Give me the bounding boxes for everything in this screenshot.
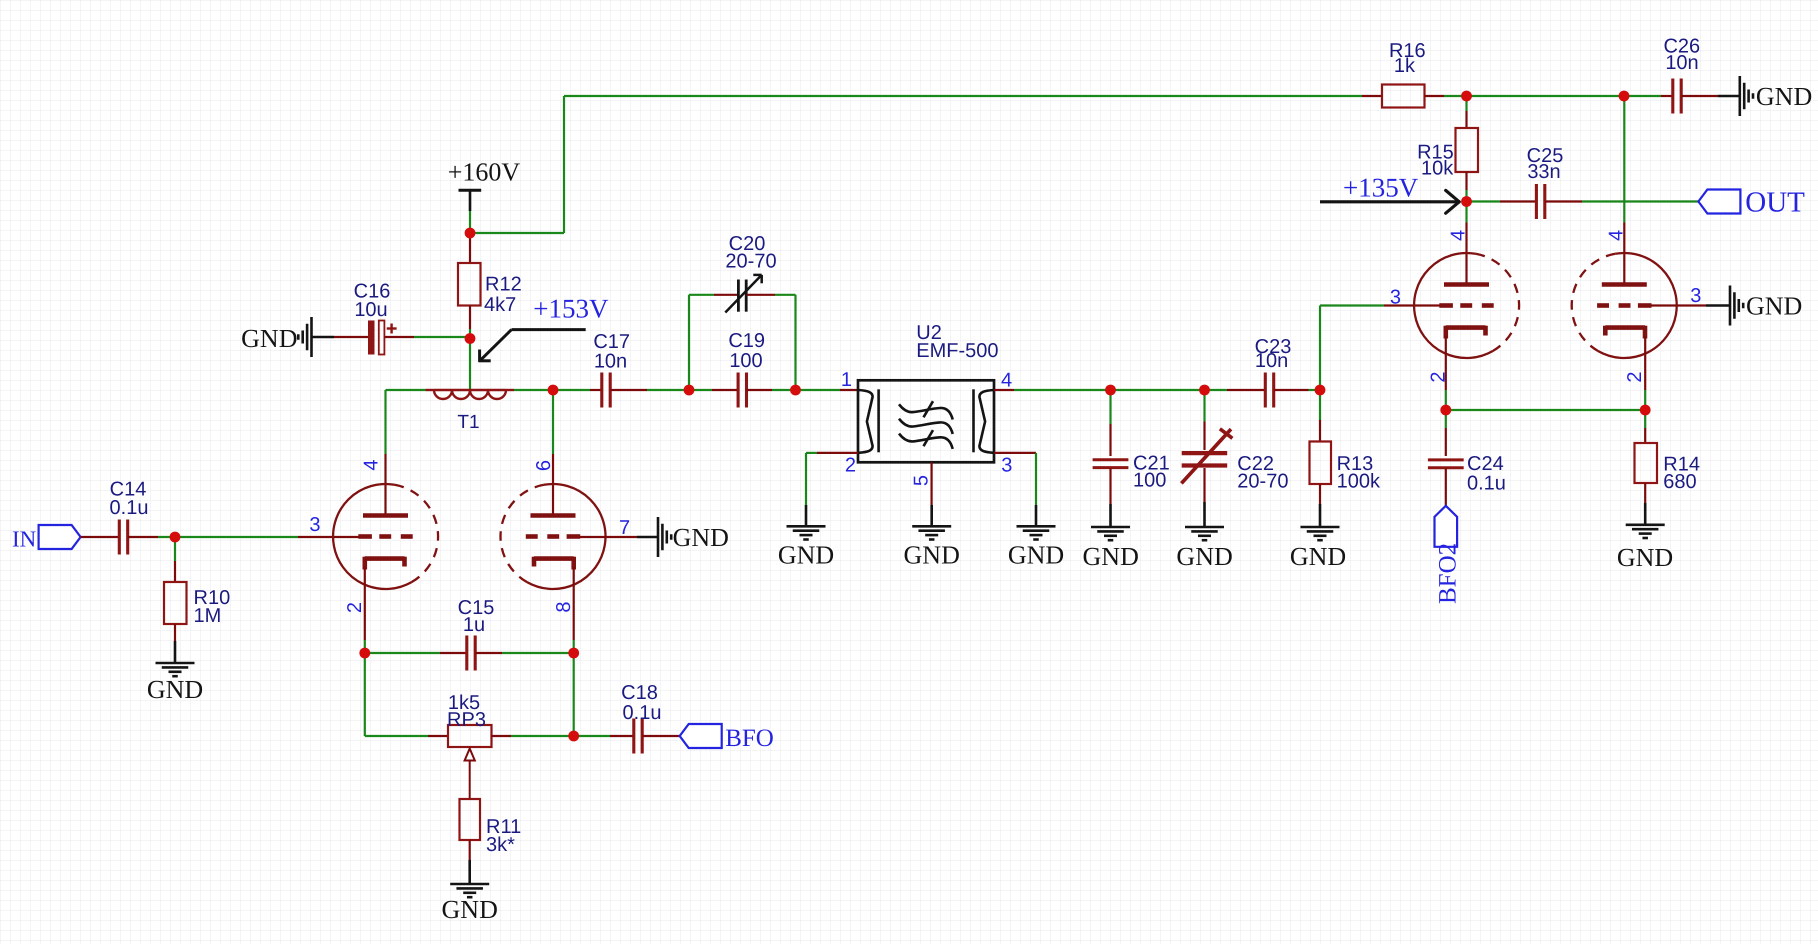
ground C22: [1176, 527, 1232, 571]
pin 2 lead V2a: [1445, 336, 1447, 390]
junction T1 right: [548, 385, 559, 396]
wire left node down: [364, 653, 366, 736]
lead C17 right: [611, 389, 648, 391]
svg-text:C18: C18: [621, 682, 658, 704]
wire U2 to C21 node: [1014, 389, 1111, 391]
svg-text:6: 6: [533, 460, 555, 471]
ground stem C22: [1203, 502, 1206, 527]
wire T1 right: [514, 389, 553, 391]
junction C14/R10: [170, 532, 181, 543]
pin 8 lead tube V1b: [573, 567, 575, 640]
capacitor C15: [458, 597, 495, 671]
svg-text:BFO2: BFO2: [1435, 543, 1462, 604]
wire C20 right: [775, 294, 796, 296]
lead R15 bottom: [1465, 172, 1467, 190]
pin 6 lead tube V1b: [552, 454, 554, 516]
lead U2 pin5: [930, 462, 932, 505]
svg-text:OUT: OUT: [1745, 187, 1805, 219]
lead C20 left: [714, 294, 738, 296]
resistor R13: [1310, 442, 1381, 493]
capacitor C14: [110, 479, 149, 555]
lead C22 top: [1203, 422, 1205, 451]
wire T1 node to C17: [553, 389, 590, 391]
lead C21 top: [1109, 424, 1111, 456]
lead R14 top: [1644, 428, 1646, 443]
svg-text:100: 100: [1133, 470, 1166, 492]
svg-text:3: 3: [1690, 285, 1701, 307]
svg-text:GND: GND: [1176, 542, 1232, 571]
svg-text:2: 2: [1427, 371, 1449, 382]
resistor R11: [460, 799, 522, 856]
wire C14 to node: [128, 536, 158, 538]
pin 2 lead tube V1a: [364, 567, 366, 640]
wire C21 node to C22 node: [1111, 389, 1205, 391]
pin 3 lead V2a: [1384, 304, 1440, 306]
pin 4 label V2a: [1448, 230, 1470, 241]
svg-text:GND: GND: [778, 541, 834, 570]
lead R13 bottom: [1319, 484, 1321, 504]
svg-text:GND: GND: [1617, 543, 1673, 572]
lead U2 pin1: [840, 389, 858, 391]
svg-text:4: 4: [361, 459, 383, 470]
junction R16/R15: [1461, 91, 1472, 102]
wire pin2 to node: [364, 640, 366, 653]
lead C23 left: [1227, 389, 1265, 391]
lead U2 pin3: [994, 452, 1036, 454]
resistor R10: [164, 582, 230, 627]
wire node to R12: [469, 233, 471, 263]
svg-text:3: 3: [1001, 455, 1012, 477]
ground stem R10: [174, 641, 177, 663]
svg-text:EMF-500: EMF-500: [916, 340, 998, 362]
triode V2a: [1414, 253, 1519, 358]
wire node to grid pin 3: [158, 536, 298, 538]
ground stem R14: [1644, 503, 1647, 525]
ground pin 7: [658, 517, 729, 557]
svg-text:0.1u: 0.1u: [110, 497, 149, 519]
svg-text:4: 4: [1448, 230, 1470, 241]
wire R13 node down: [1319, 390, 1321, 420]
wire C26 node right: [1624, 95, 1661, 97]
lead R16 right: [1425, 95, 1445, 97]
ground stem pin3: [1035, 505, 1038, 526]
junction C21: [1105, 385, 1116, 396]
wire C20 left: [689, 294, 714, 296]
lead C17 left: [590, 389, 602, 391]
pin 3 label V2a: [1390, 287, 1401, 309]
resistor R15: [1417, 128, 1478, 180]
capacitor C19: [728, 330, 765, 408]
svg-text:7: 7: [619, 517, 630, 539]
svg-text:1k: 1k: [1394, 55, 1416, 77]
svg-text:GND: GND: [673, 523, 729, 552]
svg-text:GND: GND: [1746, 292, 1802, 321]
wire node to C25: [1467, 200, 1501, 202]
capacitor C25: [1527, 145, 1564, 219]
lead C21 bottom: [1109, 468, 1111, 504]
wire node to R15: [1465, 96, 1467, 111]
wire R16 to node: [1444, 95, 1467, 97]
wire C23 to node: [1309, 389, 1321, 391]
resistor R14: [1635, 443, 1701, 493]
svg-text:2: 2: [845, 455, 856, 477]
filter U2 EMF-500: [858, 322, 999, 462]
wire C15 to node: [502, 652, 574, 654]
ground C21: [1083, 527, 1139, 571]
junction C19 right: [790, 385, 801, 396]
svg-text:0.1u: 0.1u: [1467, 473, 1506, 495]
capacitor C17: [593, 331, 630, 408]
svg-text:RP3: RP3: [447, 709, 486, 731]
pin 3 lead V2b: [1651, 304, 1706, 306]
svg-text:4: 4: [1001, 370, 1012, 392]
inductor T1: [426, 390, 515, 433]
wire pin2 V2a: [1445, 390, 1447, 410]
svg-text:+135V: +135V: [1343, 173, 1419, 203]
svg-text:GND: GND: [442, 895, 498, 924]
U2 pin 4 label: [1001, 370, 1012, 392]
svg-text:BFO: BFO: [725, 725, 774, 752]
U2 pin 5 label: [910, 475, 932, 486]
ground R13: [1290, 527, 1346, 571]
pin 7 label: [619, 517, 630, 539]
wire pin2 V2b: [1644, 390, 1646, 410]
svg-text:+160V: +160V: [448, 157, 521, 186]
capacitor C24: [1428, 453, 1506, 495]
pin 3 label V2b: [1690, 285, 1701, 307]
junction R13 node: [1315, 385, 1326, 396]
lead C26 left: [1661, 95, 1672, 97]
wire node to C19: [689, 389, 712, 391]
wire node to C15: [365, 652, 440, 654]
lead C25 left: [1500, 200, 1536, 202]
capacitor C20 variable: [725, 233, 776, 313]
ground stem pin5: [930, 505, 933, 526]
wire top rail to +160V node: [470, 232, 564, 234]
junction C22: [1199, 385, 1210, 396]
wire node down: [174, 537, 176, 561]
junction V2a cathode: [1440, 405, 1451, 416]
svg-text:GND: GND: [1290, 542, 1346, 571]
pin 2 lead V2b: [1644, 336, 1646, 390]
pin 4 wire tube V1a: [384, 390, 386, 454]
svg-text:GND: GND: [1083, 542, 1139, 571]
junction cathode left: [359, 648, 370, 659]
capacitor C26: [1663, 36, 1700, 114]
svg-text:4: 4: [1606, 230, 1628, 241]
U2 pin 2 label: [845, 455, 856, 477]
lead R13 top: [1319, 420, 1321, 442]
port OUT: [1698, 187, 1805, 219]
lead C22 bottom: [1203, 468, 1205, 502]
ground stem C26: [1718, 95, 1740, 98]
junction V2b cathode: [1640, 405, 1651, 416]
svg-text:+153V: +153V: [533, 294, 609, 324]
U2 pin 3 label: [1001, 455, 1012, 477]
wire ground to C16: [334, 336, 368, 338]
wire pin3 down: [1035, 453, 1037, 505]
pin 4 wire V2a: [1465, 202, 1467, 223]
wire C16 green to node: [414, 336, 470, 338]
ground U2 pin 3: [1008, 526, 1064, 569]
lead C26 right: [1682, 95, 1719, 97]
wire C25 to OUT: [1582, 200, 1698, 202]
svg-text:10n: 10n: [1665, 52, 1698, 74]
lead C15 left: [440, 652, 467, 654]
lead U2 pin4: [994, 389, 1014, 391]
junction C26: [1619, 91, 1630, 102]
lead C19 left: [712, 389, 738, 391]
junction R12/C16 node: [465, 333, 476, 344]
capacitor C18: [621, 682, 661, 754]
annotation +153V: [479, 294, 610, 362]
capacitor C23: [1255, 336, 1292, 408]
svg-text:R12: R12: [485, 274, 522, 296]
junction OUT node: [1461, 196, 1472, 207]
lead C23 right: [1274, 389, 1309, 391]
svg-text:4k7: 4k7: [484, 294, 516, 316]
svg-text:3: 3: [309, 514, 320, 536]
svg-text:GND: GND: [147, 675, 203, 704]
svg-text:10n: 10n: [594, 351, 627, 373]
lead C15 right: [476, 652, 503, 654]
annotation +135V: [1320, 173, 1459, 214]
lead R15 top: [1465, 111, 1467, 128]
wire C22 node to C23: [1205, 389, 1228, 391]
svg-text:1: 1: [841, 369, 852, 391]
svg-text:8: 8: [553, 601, 575, 612]
wire R10 to ground: [174, 624, 176, 641]
wire C22 node down: [1203, 390, 1205, 422]
pin 2 label V2a: [1427, 371, 1449, 382]
pin 4 lead V2a: [1465, 223, 1467, 285]
svg-text:3: 3: [1390, 287, 1401, 309]
wire T1 left: [386, 389, 426, 391]
wire C21 node down: [1109, 390, 1111, 424]
wire to R10: [174, 561, 176, 582]
ground stem R13: [1319, 504, 1322, 527]
lead RP3 right: [492, 735, 512, 737]
pin 4 lead V2b: [1623, 223, 1625, 285]
wire top rail vertical: [563, 96, 565, 233]
triode V2b: [1572, 253, 1677, 358]
ground stem pin7: [637, 536, 658, 539]
port IN: [12, 525, 81, 552]
resistor R12: [458, 263, 522, 316]
wire R12 node green: [469, 329, 471, 339]
wire node to T1 tap: [469, 339, 471, 391]
pin 3 label: [309, 514, 320, 536]
svg-text:20-70: 20-70: [1237, 470, 1288, 492]
svg-text:GND: GND: [1756, 82, 1812, 111]
svg-text:IN: IN: [12, 527, 37, 552]
U2 pin 1 label: [841, 369, 852, 391]
svg-text:100: 100: [729, 350, 762, 372]
pin 2 label V2b: [1624, 371, 1646, 382]
junction C19 left: [684, 385, 695, 396]
lead C24 bottom: [1445, 468, 1447, 506]
pin 3 lead tube V1: [298, 536, 359, 538]
svg-text:1u: 1u: [463, 614, 485, 636]
wire cathode link: [1446, 409, 1645, 411]
wire C20 down: [794, 295, 796, 390]
pin 2 label: [344, 602, 366, 613]
lead C19 right: [747, 389, 773, 391]
pin 8 label: [553, 601, 575, 612]
ground stem pin2: [805, 505, 808, 526]
ground stem R11: [468, 860, 471, 884]
svg-text:10n: 10n: [1255, 350, 1288, 372]
pin 4 lead tube V1a: [384, 454, 386, 516]
wire R15 to node: [1465, 190, 1467, 202]
svg-text:GND: GND: [1008, 541, 1064, 570]
wire top rail horizontal: [564, 95, 1362, 97]
lead U2 pin2: [817, 452, 858, 454]
wire IN to C14: [81, 536, 119, 538]
wire C19 to node: [772, 389, 796, 391]
lead C20 right: [747, 294, 776, 296]
svg-text:C19: C19: [728, 330, 765, 352]
lead R14 bottom: [1644, 483, 1646, 503]
lead RP3 left: [428, 735, 448, 737]
wire R11 to ground: [469, 840, 471, 860]
svg-text:GND: GND: [904, 541, 960, 570]
ground U2 pin 2: [778, 526, 834, 569]
wire node to C26 node: [1467, 95, 1625, 97]
ground U2 pin 5: [904, 526, 960, 569]
junction RP3/C18: [568, 731, 579, 742]
wire node to R14: [1644, 410, 1646, 428]
wire pin2 down: [805, 453, 807, 505]
junction +160V node: [465, 228, 476, 239]
ground stem C21: [1109, 504, 1112, 527]
svg-text:GND: GND: [241, 324, 297, 353]
ground below R11: [442, 884, 498, 924]
lead C18 right: [643, 735, 680, 737]
svg-text:1M: 1M: [194, 605, 222, 627]
ground left of C16: [241, 317, 311, 357]
wire C17 to node: [647, 389, 689, 391]
lead C24 top: [1445, 428, 1447, 456]
ground top right: [1740, 76, 1812, 116]
svg-text:3k*: 3k*: [486, 834, 515, 856]
potentiometer RP3: [447, 692, 491, 799]
capacitor C16 polarized: [354, 281, 397, 355]
svg-text:T1: T1: [457, 412, 479, 433]
pin 4 wire V2b: [1623, 96, 1625, 223]
ground stem V2b pin3: [1706, 304, 1730, 307]
svg-text:33n: 33n: [1527, 161, 1560, 183]
svg-text:10u: 10u: [354, 299, 387, 321]
svg-text:2: 2: [344, 602, 366, 613]
power +160V: [448, 157, 521, 211]
pin 6 wire tube V1b: [552, 390, 554, 454]
svg-text:680: 680: [1663, 471, 1696, 493]
svg-text:2: 2: [1624, 371, 1646, 382]
ground below R10: [147, 663, 203, 704]
port BFO: [680, 724, 774, 752]
wire +160V to node: [469, 211, 471, 233]
wire R12 to node: [469, 306, 471, 330]
wire pin2: [806, 452, 817, 454]
wire node up: [573, 653, 575, 736]
capacitor C21: [1093, 453, 1170, 492]
wire C16 to node: [385, 336, 415, 338]
svg-text:100k: 100k: [1337, 470, 1381, 492]
ground stem C16: [312, 336, 335, 339]
lead C25 right: [1545, 200, 1582, 202]
wire node to C18: [574, 735, 610, 737]
junction cathode right: [568, 648, 579, 659]
lead C18 left: [610, 735, 634, 737]
ground V2b pin 3: [1730, 286, 1802, 326]
wire to V2a pin 3: [1320, 304, 1384, 306]
svg-text:20-70: 20-70: [725, 251, 776, 273]
triode V1a: [333, 484, 438, 589]
ground R14: [1617, 525, 1673, 572]
wire node up C20: [688, 295, 690, 390]
pin 6 label: [533, 460, 555, 471]
wire node to C24: [1445, 410, 1447, 428]
wire to RP3: [365, 735, 428, 737]
svg-text:5: 5: [910, 475, 932, 486]
capacitor C22 variable: [1181, 429, 1288, 493]
wire RP3 to node: [511, 735, 574, 737]
triode V1b: [501, 484, 606, 589]
lead R16 left: [1362, 95, 1382, 97]
wire node up: [1319, 306, 1321, 391]
resistor R16: [1382, 40, 1426, 108]
pin 7 lead tube V1b: [580, 536, 637, 538]
svg-text:0.1u: 0.1u: [623, 702, 662, 724]
port BFO2: [1435, 506, 1462, 604]
svg-text:10k: 10k: [1421, 158, 1454, 180]
wire pin8 to node: [573, 640, 575, 653]
pin 4 label: [361, 459, 383, 470]
wire node to U2: [796, 389, 841, 391]
pin 4 label V2b: [1606, 230, 1628, 241]
